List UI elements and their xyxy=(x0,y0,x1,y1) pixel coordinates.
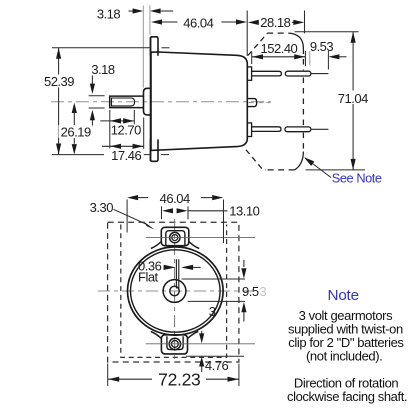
dimension 4.76 down arrow xyxy=(201,331,203,335)
bottom hole crosshair line xyxy=(146,343,255,345)
terminal T2 bar xyxy=(252,127,281,132)
dimension 46.04 front extension lines xyxy=(126,200,128,233)
dimension 46.04 top xyxy=(151,19,162,24)
plate top tab xyxy=(151,37,159,56)
dimension 71.04 xyxy=(352,32,354,170)
shaft bottom extension line xyxy=(89,107,105,109)
svg-text:12.70: 12.70 xyxy=(111,122,141,137)
outer dashed square (battery clip) xyxy=(108,222,239,362)
dimension 13.10 arrows xyxy=(162,208,173,213)
shaft xyxy=(110,96,144,108)
terminal T1 bar xyxy=(252,71,282,76)
dimension 12.70 extension lines xyxy=(109,110,111,149)
inner dashed square (gear case) xyxy=(121,225,227,358)
dimension 26.19 xyxy=(72,103,77,113)
bottom tab hole xyxy=(169,338,180,349)
mounting plate edge xyxy=(150,37,152,162)
svg-text:3.18: 3.18 xyxy=(91,62,115,77)
battery clip top-right corner arc xyxy=(289,33,304,48)
shaft flat lines xyxy=(175,259,177,288)
shaft circle xyxy=(170,286,179,295)
dimension 9.53 front down arrow xyxy=(243,260,245,267)
svg-text:46.04: 46.04 xyxy=(183,15,213,30)
dimension 9.53 right extension line xyxy=(327,51,329,70)
dimension 3.18 shaft down arrow xyxy=(91,76,93,85)
dimension 72.23 extension lines xyxy=(107,364,109,387)
svg-text:Flat: Flat xyxy=(138,270,159,285)
dimension 152.40 right extension line xyxy=(304,51,306,66)
dimension 3.18 extension lines (gray) xyxy=(142,6,144,88)
plate bottom tab xyxy=(151,139,159,161)
bottom tab left wing xyxy=(151,332,162,339)
middle tab xyxy=(247,99,256,107)
horizontal centerline xyxy=(98,290,254,292)
dimension 12.70 xyxy=(100,120,134,122)
lead wire W1 segment xyxy=(285,71,311,76)
bottom tab inner line xyxy=(167,336,183,349)
top mounting tab xyxy=(161,227,189,245)
dimension 46.04 right extension line xyxy=(246,11,248,57)
svg-text:72.23: 72.23 xyxy=(158,370,200,390)
dimension 52.39 xyxy=(58,48,60,155)
svg-text:3.18: 3.18 xyxy=(97,6,121,21)
svg-text:4.76: 4.76 xyxy=(205,358,229,373)
svg-text:3: 3 xyxy=(209,304,216,319)
dimension 4.76 lower line xyxy=(186,355,244,357)
svg-text:52.39: 52.39 xyxy=(44,74,74,89)
dimension 9.53 right arrow xyxy=(328,54,339,59)
vertical centerline xyxy=(174,219,176,363)
svg-text:See Note: See Note xyxy=(332,170,382,185)
dimension 152.40 left extension line xyxy=(251,52,253,65)
svg-text:9.5: 9.5 xyxy=(242,284,259,299)
terminal T2 base xyxy=(247,123,251,137)
battery clip dashed outline top diagonal xyxy=(248,33,267,55)
bottom extension line xyxy=(52,154,104,156)
svg-text:9.53: 9.53 xyxy=(310,39,334,54)
top tab inner line xyxy=(166,231,185,246)
dimension 3.18 shaft up arrow xyxy=(90,110,95,120)
dimension 0.36 left arrow xyxy=(164,265,176,270)
dimension 0.36 right arrow xyxy=(181,265,193,270)
centerline stub right xyxy=(259,102,271,104)
lead wire W2 tip line xyxy=(311,128,329,130)
bottom mounting tab xyxy=(161,335,187,354)
dimension 4.76 up arrow xyxy=(199,357,204,367)
shaft flat xyxy=(112,98,135,106)
dimension 52.39 top extension line xyxy=(52,47,150,49)
see note leader arrow xyxy=(309,161,332,178)
dimension 9.53 front upper line xyxy=(182,278,245,280)
top tab left wing xyxy=(151,242,161,249)
dimension 3.18 left arrow xyxy=(129,10,135,12)
motor body outline xyxy=(151,52,247,150)
dimension 28.18 right extension line xyxy=(304,11,306,34)
top tab hole xyxy=(170,232,180,242)
centerline shaft axis xyxy=(51,101,271,103)
svg-text:clockwise facing shaft.: clockwise facing shaft. xyxy=(287,389,407,404)
dimension 9.53 gray extension line xyxy=(309,51,311,66)
svg-text:(not included).: (not included). xyxy=(306,349,382,364)
dimension 152.40 line with arrows xyxy=(252,56,305,58)
motor face outer circle xyxy=(128,247,224,335)
top tab right wing xyxy=(189,242,199,249)
shaft boss xyxy=(144,88,151,115)
dimension 71.04 top extension line xyxy=(295,31,359,33)
dimension 17.46 right extension line xyxy=(143,118,145,149)
battery clip bottom-right corner arc xyxy=(295,152,304,170)
shaft top extension line xyxy=(89,95,105,97)
middle tab centerline xyxy=(248,102,253,104)
dimension 9.53 front up arrow xyxy=(241,302,246,312)
svg-text:3: 3 xyxy=(259,284,266,299)
dimension 72.23 xyxy=(108,378,239,380)
svg-text:28.18: 28.18 xyxy=(260,15,290,30)
battery clip dashed outline top edge xyxy=(267,32,288,34)
dimension 9.53 front lower line xyxy=(188,300,245,302)
svg-text:26.19: 26.19 xyxy=(61,124,91,139)
svg-text:3.30: 3.30 xyxy=(90,200,114,215)
lead wire W2 segment xyxy=(285,127,311,132)
svg-text:46.04: 46.04 xyxy=(160,191,190,206)
dimension 28.18 xyxy=(248,20,259,25)
svg-text:17.46: 17.46 xyxy=(111,148,141,163)
dimension 3.30 leader arrow xyxy=(114,209,147,224)
svg-text:Note: Note xyxy=(328,287,359,304)
svg-text:152.40: 152.40 xyxy=(261,41,298,56)
dimension 46.04 front xyxy=(127,195,138,200)
dimension 3.18 right arrow xyxy=(150,8,161,13)
svg-text:71.04: 71.04 xyxy=(338,91,368,106)
top hole crosshair line xyxy=(146,237,255,239)
dimension 71.04 bottom extension line xyxy=(306,169,365,171)
motor face inner circle xyxy=(131,250,221,332)
battery clip dashed bottom edge xyxy=(266,169,295,171)
hub outer circle xyxy=(163,280,186,303)
terminal T1 base xyxy=(247,67,251,80)
dimension 13.10 extension lines xyxy=(161,206,163,219)
battery clip dashed right edge xyxy=(302,49,304,71)
dimension 17.46 xyxy=(102,145,144,147)
bottom tab right wing xyxy=(188,331,199,338)
battery clip dashed bottom diagonal xyxy=(246,150,266,170)
svg-text:13.10: 13.10 xyxy=(229,204,259,219)
lead wire W1 tip line xyxy=(311,73,329,75)
